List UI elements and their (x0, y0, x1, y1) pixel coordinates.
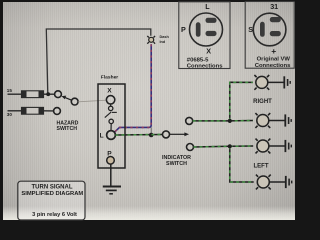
svg-text:Original VW: Original VW (257, 57, 291, 63)
terminal: hazard switch top contact (55, 91, 62, 98)
svg-text:SWITCH: SWITCH (166, 161, 187, 167)
svg-text:X: X (107, 88, 112, 95)
connector #0685-5 (179, 2, 230, 70)
terminal L (100, 131, 116, 140)
svg-text:Connections: Connections (187, 63, 223, 69)
terminal: indicator switch right (186, 117, 193, 124)
svg-text:L: L (100, 133, 104, 140)
wire: feed loop from fuse 15 up and across to dash indicator (46, 29, 151, 94)
connector: original VW (245, 2, 294, 70)
lamp: right rear (255, 113, 270, 128)
svg-text:31: 31 (270, 2, 278, 11)
ground: left front lamp (269, 140, 292, 152)
label: Dash Ind (160, 35, 170, 44)
lamp: dash indicator (147, 36, 155, 44)
wire: dash indicator to flasher L (purple/red) (114, 44, 151, 134)
svg-text:SWITCH: SWITCH (57, 126, 78, 132)
title box (18, 181, 85, 220)
svg-text:Dash: Dash (160, 35, 170, 39)
terminal P (107, 150, 115, 164)
junction: purple wire / L wire (149, 133, 154, 138)
label: INDICATOR SWITCH (162, 155, 191, 167)
svg-text:X: X (206, 47, 211, 56)
svg-text:RIGHT: RIGHT (253, 99, 272, 105)
terminal: indicator switch left (187, 144, 194, 151)
fuse 15 (7, 88, 55, 98)
wire: left terminal to left lamps (green/black) (194, 146, 254, 182)
flasher relay box (98, 75, 125, 169)
junction: left branch (228, 144, 232, 148)
wire: right terminal to right lamps (green/black) (193, 82, 253, 121)
svg-text:L: L (205, 2, 210, 11)
junction: fuse 15 / feed wire (46, 92, 50, 96)
indicator switch (163, 131, 190, 138)
ground: flasher (103, 187, 121, 194)
ground: right rear lamp (268, 114, 291, 126)
svg-text:Flasher: Flasher (101, 75, 118, 81)
junction: right branch (228, 119, 232, 123)
hazard switch arm with arrow (62, 96, 79, 105)
svg-text:3 pin relay 6 Volt: 3 pin relay 6 Volt (32, 212, 77, 218)
flasher contact points (105, 104, 117, 131)
lamp: left front (256, 139, 271, 154)
lamp: left rear (256, 175, 271, 190)
svg-text:+: + (271, 46, 276, 56)
wire: hazard switch to flasher X (faint) (78, 100, 106, 102)
ground: right front lamp (267, 76, 290, 88)
svg-text:30: 30 (7, 112, 13, 117)
wire: L to indicator switch (green/black) (115, 134, 162, 137)
terminal: hazard switch bottom contact (54, 108, 61, 115)
svg-text:S: S (248, 25, 253, 34)
terminal X (106, 88, 114, 104)
svg-text:LEFT: LEFT (254, 163, 269, 169)
svg-text:Ind: Ind (160, 40, 166, 44)
fuse 30 (7, 107, 54, 117)
svg-text:TURN SIGNAL: TURN SIGNAL (32, 185, 73, 191)
svg-text:Connections: Connections (255, 63, 291, 69)
lamp: right front (254, 75, 269, 90)
svg-text:P: P (181, 25, 186, 34)
wire: P to ground (110, 164, 112, 186)
svg-text:15: 15 (7, 88, 13, 93)
ground: left rear lamp (269, 176, 292, 188)
label: HAZARD SWITCH (57, 120, 79, 132)
svg-text:SIMPLIFIED DIAGRAM: SIMPLIFIED DIAGRAM (21, 191, 83, 197)
